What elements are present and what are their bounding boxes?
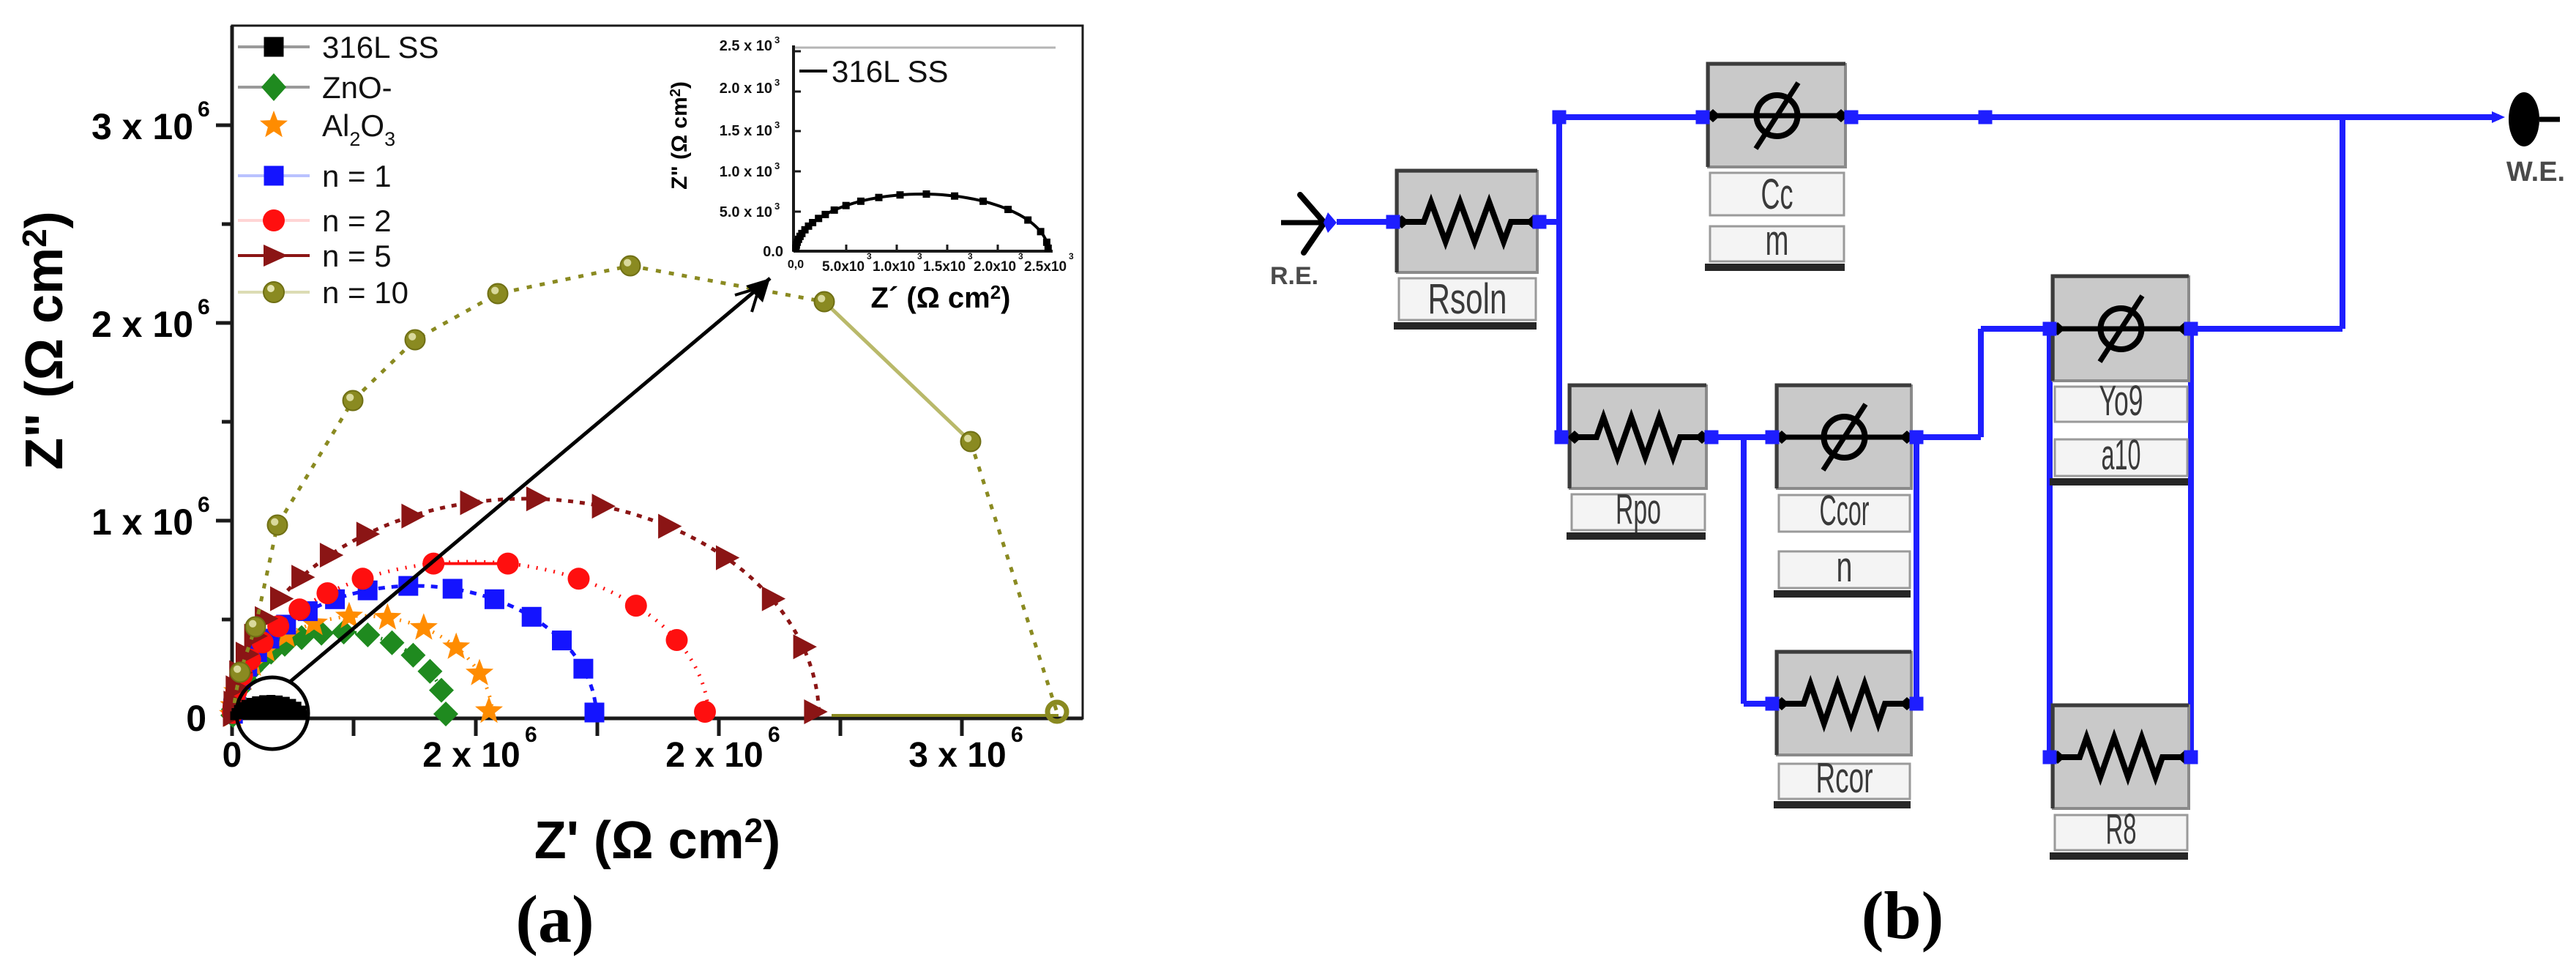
wire R.E. to Rsoln <box>1337 219 1395 225</box>
wire drop to Rcor left <box>1741 437 1747 704</box>
junction at Rpo right pin <box>1705 431 1719 444</box>
svg-text:m: m <box>1766 217 1789 264</box>
wire to Yo9 left pin <box>1981 326 2053 332</box>
svg-text:Z´ (Ω cm2): Z´ (Ω cm2) <box>871 281 1011 314</box>
svg-text:6: 6 <box>198 493 210 517</box>
wire Rsoln to vertical node <box>1539 219 1559 225</box>
svg-text:1.0 x 10: 1.0 x 10 <box>720 164 772 180</box>
junction at Rcor right pin <box>1910 697 1924 711</box>
series ZnO- green diamonds <box>220 620 458 728</box>
y tick labels <box>92 97 210 739</box>
junction at Yo9 left pin <box>2043 322 2057 336</box>
resistor R8 <box>2050 705 2192 860</box>
svg-text:6: 6 <box>525 723 537 747</box>
svg-text:3: 3 <box>774 201 780 212</box>
svg-text:6: 6 <box>768 723 780 747</box>
svg-text:n = 5: n = 5 <box>322 239 392 273</box>
svg-text:(a): (a) <box>515 882 594 956</box>
svg-text:n = 2: n = 2 <box>322 204 392 238</box>
svg-text:(b): (b) <box>1862 878 1944 953</box>
svg-text:5.0 x 10: 5.0 x 10 <box>720 204 772 220</box>
wire Yo9 right to drop <box>2193 326 2342 332</box>
resistor Rsoln <box>1394 171 1540 330</box>
svg-text:3 x 10: 3 x 10 <box>908 736 1006 775</box>
svg-text:Rsoln: Rsoln <box>1428 275 1507 323</box>
junction at Cc right pin <box>1845 111 1859 124</box>
wire Yo9-R8 left link <box>2047 329 2053 757</box>
wire Ccor output <box>1911 434 1981 440</box>
terminal R.E. <box>1270 195 1337 290</box>
inset y tick labels <box>720 34 783 260</box>
svg-text:n = 10: n = 10 <box>322 275 408 310</box>
junction at R8 right pin <box>2184 751 2198 764</box>
svg-text:Z" (Ω cm2): Z" (Ω cm2) <box>668 81 692 190</box>
junction at Yo9 right pin <box>2184 322 2198 336</box>
svg-text:3: 3 <box>1018 251 1023 261</box>
svg-text:0.0: 0.0 <box>763 244 783 260</box>
svg-text:3 x 10: 3 x 10 <box>92 106 193 147</box>
svg-text:ZnO-: ZnO- <box>322 70 392 105</box>
junction top-left corner <box>1553 111 1567 124</box>
svg-text:1 x 10: 1 x 10 <box>92 502 193 543</box>
svg-text:R8: R8 <box>2106 806 2137 853</box>
CPE Ccor <box>1774 385 1914 598</box>
x tick labels <box>223 723 1023 775</box>
legend <box>238 30 439 64</box>
junction at Ccor right pin <box>1910 431 1924 444</box>
inset ticks <box>794 51 1048 251</box>
wire Yo9-R8 right link <box>2188 329 2194 757</box>
junction at Ccor left pin <box>1766 431 1780 444</box>
svg-text:3: 3 <box>774 119 780 130</box>
svg-text:Cc: Cc <box>1761 171 1793 218</box>
svg-text:2 x 10: 2 x 10 <box>665 736 763 775</box>
svg-text:Ccor: Ccor <box>1820 487 1870 535</box>
svg-text:0: 0 <box>223 736 242 775</box>
svg-text:3: 3 <box>1069 251 1074 261</box>
svg-text:3: 3 <box>917 251 922 261</box>
svg-text:Z' (Ω cm2): Z' (Ω cm2) <box>534 811 780 870</box>
series n=5 dark red triangles <box>223 486 828 727</box>
wire top rail to Cc <box>1559 114 1709 120</box>
resistor Rpo <box>1567 385 1709 540</box>
svg-text:R.E.: R.E. <box>1270 262 1318 290</box>
svg-text:3: 3 <box>774 34 780 45</box>
junction on top rail <box>1979 111 1993 124</box>
svg-text:0: 0 <box>186 698 206 739</box>
series n=2 red circles <box>222 553 716 724</box>
junction at Rsoln left pin <box>1386 215 1400 229</box>
svg-text:2.5x10: 2.5x10 <box>1024 259 1067 275</box>
series n=10 olive spheres <box>231 256 1067 722</box>
wire lower rail to Ccor <box>1559 434 1777 440</box>
terminal W.E. <box>2492 92 2565 187</box>
svg-text:6: 6 <box>198 295 210 319</box>
inset x tick labels <box>788 251 1074 275</box>
arrow to inset <box>289 278 770 682</box>
svg-text:2.0x10: 2.0x10 <box>974 259 1016 275</box>
svg-text:1.0x10: 1.0x10 <box>873 259 915 275</box>
junction at Rcor left pin <box>1766 697 1780 711</box>
inset legend 316L SS <box>799 54 949 89</box>
svg-text:0,0: 0,0 <box>788 258 804 271</box>
junction at R8 left pin <box>2043 751 2057 764</box>
svg-text:a10: a10 <box>2102 431 2141 479</box>
wire to Rcor left pin <box>1744 701 1777 707</box>
CPE Cc <box>1705 64 1848 271</box>
svg-text:W.E.: W.E. <box>2506 157 2565 187</box>
panel (a): Nyquist plot frame <box>232 26 1083 718</box>
junction lower rail corner <box>1555 431 1569 444</box>
resistor Rcor <box>1774 652 1914 808</box>
wire riser to Yo9 level <box>1978 329 1984 437</box>
y-axis ticks <box>216 125 232 620</box>
svg-text:316L SS: 316L SS <box>322 30 439 64</box>
svg-text:3: 3 <box>774 160 780 171</box>
wire vertical split node <box>1556 115 1562 437</box>
CPE Yo9 <box>2050 276 2192 485</box>
series 316L SS black squares (tiny arc at origin) <box>231 695 309 720</box>
svg-text:3: 3 <box>867 251 872 261</box>
svg-text:Yo9: Yo9 <box>2099 377 2143 425</box>
inset 316L SS semicircle <box>792 190 1052 252</box>
svg-text:2.5 x 10: 2.5 x 10 <box>720 38 772 54</box>
svg-text:Rpo: Rpo <box>1616 485 1661 533</box>
svg-text:1.5x10: 1.5x10 <box>923 259 966 275</box>
wire drop to Yo9 branch <box>2340 117 2345 329</box>
x-axis ticks <box>232 718 962 736</box>
inset plot frame <box>794 45 1056 251</box>
svg-text:3: 3 <box>774 77 780 88</box>
series Al2O3 orange stars <box>219 602 503 727</box>
svg-text:Z" (Ω cm2): Z" (Ω cm2) <box>15 211 74 469</box>
svg-text:n = 1: n = 1 <box>322 159 392 193</box>
origin highlight circle <box>236 677 308 749</box>
svg-text:6: 6 <box>1011 723 1023 747</box>
svg-text:n: n <box>1837 543 1853 591</box>
svg-text:1.5 x 10: 1.5 x 10 <box>720 123 772 139</box>
svg-text:3: 3 <box>968 251 973 261</box>
svg-text:6: 6 <box>198 97 210 122</box>
svg-text:2 x 10: 2 x 10 <box>92 304 193 345</box>
wire Ccor-Rcor right link <box>1914 437 1919 704</box>
series n=1 blue squares <box>223 576 605 724</box>
junction at Cc left pin <box>1696 111 1710 124</box>
svg-text:Rcor: Rcor <box>1816 754 1873 802</box>
svg-text:5.0x10: 5.0x10 <box>822 259 865 275</box>
junction at Rsoln right pin <box>1533 215 1547 229</box>
svg-text:2 x 10: 2 x 10 <box>422 736 520 775</box>
svg-text:2.0 x 10: 2.0 x 10 <box>720 81 772 97</box>
svg-text:316L SS: 316L SS <box>832 54 949 89</box>
wire top rail Cc to W.E. <box>1845 114 2499 120</box>
